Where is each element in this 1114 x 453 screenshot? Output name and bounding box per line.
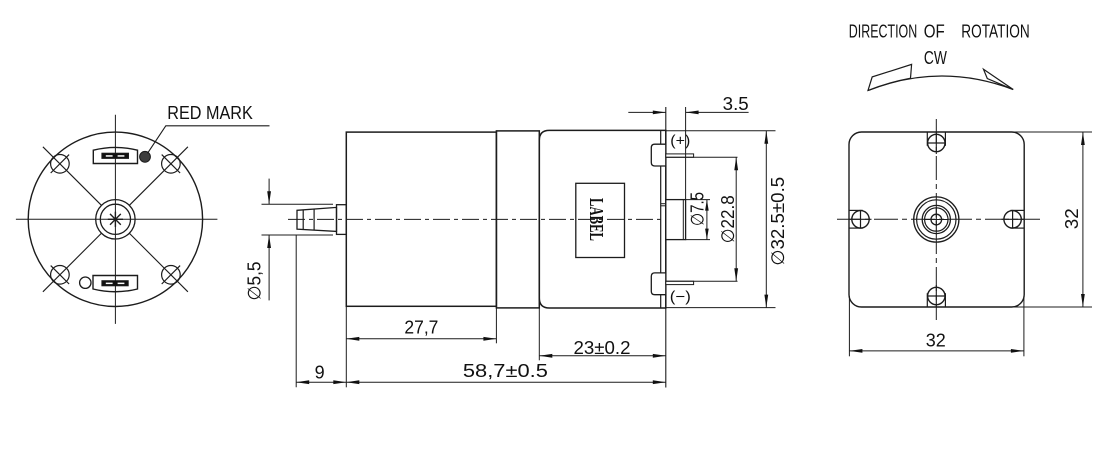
3.5 extension line	[685, 107, 687, 200]
terminal lug top	[666, 154, 694, 157]
terminal tab top	[651, 144, 666, 166]
terminal lug bottom	[666, 281, 694, 284]
dia 32.5 extension top	[666, 130, 776, 132]
svg-text:DIRECTION: DIRECTION	[849, 22, 917, 42]
top brush slot bar	[102, 153, 129, 158]
svg-text:∅32.5±0.5: ∅32.5±0.5	[768, 177, 788, 266]
9 dimension line	[296, 380, 346, 384]
dia 32.5 dimension line	[764, 131, 768, 308]
svg-text:(−): (−)	[670, 288, 691, 305]
gearbox body	[346, 132, 496, 306]
spoke SW	[43, 233, 101, 291]
dia 22.8 dimension line	[734, 157, 738, 281]
square vertical centerline	[935, 119, 937, 320]
rear bearing boss	[666, 200, 686, 240]
svg-text:23±0.2: 23±0.2	[574, 338, 631, 358]
screw cross solid segments	[849, 132, 1024, 307]
svg-text:∅5,5: ∅5,5	[245, 262, 265, 301]
svg-text:∅7.5: ∅7.5	[688, 192, 708, 226]
svg-text:LABEL: LABEL	[585, 198, 606, 241]
58.7 dimension line	[346, 380, 666, 384]
svg-text:27,7: 27,7	[404, 317, 438, 337]
32 bottom extension right	[1023, 296, 1025, 356]
bottom brush slot bar	[102, 281, 128, 286]
32 right extension bottom	[1011, 306, 1092, 308]
motor rear view outer circle	[28, 132, 202, 306]
32 bottom extension left	[848, 296, 850, 356]
RED MARK leader line	[148, 126, 270, 154]
svg-text:3.5: 3.5	[723, 94, 749, 114]
shaft hub outer circle	[96, 200, 135, 239]
dia 7.5 extension bottom	[686, 239, 710, 241]
top brush cap slot	[93, 147, 137, 163]
27.7 extension line left	[345, 306, 347, 387]
center bearing circle 1	[914, 197, 959, 242]
shaft hub inner circle	[100, 204, 130, 234]
dia 22.8 extension line top	[666, 156, 738, 158]
svg-text:58,7±0.5: 58,7±0.5	[463, 361, 548, 381]
svg-text:ROTATION: ROTATION	[961, 22, 1029, 42]
DIRECTION OF ROTATION label	[849, 22, 1030, 42]
center bearing circle 4	[925, 208, 948, 231]
boss tip line	[682, 200, 684, 240]
dia 22.8 extension line bottom	[666, 280, 738, 282]
screw bottom	[927, 287, 945, 307]
vent hole small circle	[80, 277, 91, 288]
svg-text:(+): (+)	[670, 133, 690, 150]
dia 5.5 dimension line lower	[267, 235, 271, 300]
hub center asterisk	[108, 212, 123, 227]
dia 7.5 dimension line	[705, 200, 709, 240]
left view horizontal centerline	[16, 218, 218, 220]
32 right dimension line	[1081, 132, 1085, 307]
3.5 dimension arrow left	[628, 111, 666, 115]
end face / extension line	[665, 107, 667, 388]
red mark dot	[140, 151, 151, 162]
dia 5.5 dimension line upper	[267, 179, 271, 205]
23 dimension line	[539, 354, 666, 358]
motor can body	[539, 130, 666, 308]
center bearing circle 3	[922, 205, 950, 233]
screw left	[849, 210, 869, 228]
center shaft circle	[931, 214, 942, 225]
shaft tip taper	[297, 207, 337, 231]
screw top	[927, 132, 945, 152]
terminal tab bottom	[651, 273, 666, 295]
svg-text:OF: OF	[924, 22, 945, 42]
shaft diameter extension line bottom	[262, 234, 334, 236]
motor end cap seam	[660, 130, 662, 308]
27.7 extension line right	[495, 306, 497, 343]
center bearing circle 2	[917, 200, 956, 239]
svg-text:RED MARK: RED MARK	[167, 103, 253, 123]
bottom brush cap slot	[93, 276, 138, 292]
32 bottom dimension line	[849, 349, 1024, 353]
side view centerline	[288, 218, 684, 220]
label box	[576, 183, 625, 257]
rotation arrow arc	[868, 76, 1013, 91]
svg-text:∅22.8: ∅22.8	[718, 195, 738, 243]
gearbox front square	[849, 132, 1024, 307]
screw right	[1004, 210, 1024, 228]
mounting hole bottom-left	[51, 266, 70, 285]
spoke NE	[130, 147, 188, 205]
dia 32.5 extension bottom	[666, 307, 776, 309]
svg-text:32: 32	[926, 331, 946, 351]
seam joint marks	[661, 203, 666, 205]
svg-text:9: 9	[315, 363, 325, 383]
shaft collar	[337, 205, 347, 235]
square horizontal centerline	[837, 218, 1040, 220]
mounting hole top-left	[51, 155, 70, 174]
mounting hole bottom-right	[162, 266, 181, 285]
svg-text:CW: CW	[924, 48, 947, 68]
mounting hole top-right	[162, 155, 181, 174]
shaft step line 2	[313, 209, 315, 230]
rotation arrow head	[984, 69, 1014, 89]
spoke SE	[130, 233, 188, 291]
23 extension line left	[538, 308, 540, 360]
3.5 dimension arrow right	[686, 111, 749, 115]
32 right extension top	[1011, 131, 1092, 133]
svg-text:32: 32	[1062, 208, 1082, 229]
dia 7.5 extension top	[686, 199, 710, 201]
shaft step line 1	[302, 210, 304, 230]
left view vertical centerline	[114, 115, 116, 324]
shaft diameter extension line top	[262, 203, 334, 205]
spoke NW	[43, 147, 101, 205]
gearbox flange section	[496, 131, 539, 308]
rotation arrow tail flag	[868, 64, 912, 90]
9 extension line	[295, 235, 297, 387]
27.7 dimension line	[346, 337, 496, 341]
